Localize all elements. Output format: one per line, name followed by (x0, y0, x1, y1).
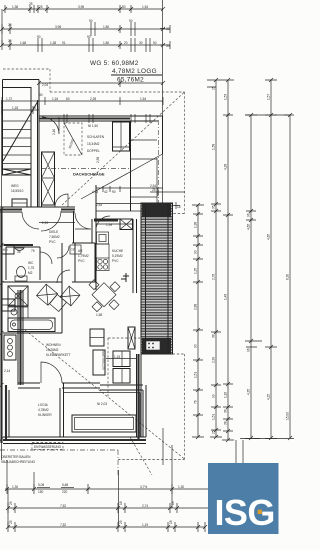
svg-text:1,72: 1,72 (6, 97, 12, 101)
svg-text:AR: AR (78, 249, 83, 253)
svg-text:5,19M2: 5,19M2 (112, 254, 123, 258)
svg-text:76: 76 (194, 400, 198, 404)
svg-text:42: 42 (104, 190, 108, 194)
svg-text:1,30: 1,30 (12, 485, 18, 489)
svg-text:1,51: 1,51 (212, 414, 216, 420)
svg-text:90: 90 (112, 190, 116, 194)
svg-text:PVC: PVC (49, 240, 56, 244)
svg-text:KLINKER: KLINKER (38, 413, 52, 417)
svg-text:25: 25 (39, 5, 43, 9)
svg-text:38: 38 (224, 421, 228, 425)
svg-text:90: 90 (194, 250, 198, 254)
svg-text:96: 96 (247, 213, 251, 217)
svg-text:90: 90 (87, 35, 91, 39)
svg-text:SCHLAFEN: SCHLAFEN (87, 135, 105, 139)
svg-text:18: 18 (169, 520, 173, 524)
svg-text:5,08: 5,08 (38, 483, 44, 487)
svg-text:96: 96 (247, 348, 251, 352)
svg-text:25: 25 (8, 39, 12, 43)
svg-text:99: 99 (212, 394, 216, 398)
svg-text:2,28: 2,28 (90, 97, 96, 101)
svg-text:4,78M2: 4,78M2 (38, 408, 49, 412)
svg-text:3,96: 3,96 (55, 25, 61, 29)
svg-text:2,04: 2,04 (42, 83, 48, 87)
svg-text:75: 75 (31, 249, 35, 253)
svg-text:25: 25 (9, 501, 13, 505)
svg-text:16,55/10: 16,55/10 (11, 189, 24, 193)
svg-text:15,00: 15,00 (286, 412, 290, 420)
svg-text:38: 38 (212, 334, 216, 338)
svg-text:1,35: 1,35 (194, 268, 198, 274)
svg-text:30: 30 (39, 93, 43, 97)
svg-text:4,28: 4,28 (224, 164, 228, 170)
svg-text:7,52: 7,52 (60, 523, 66, 527)
svg-text:1,75: 1,75 (28, 266, 34, 270)
svg-text:5,68: 5,68 (62, 483, 68, 487)
svg-text:2,58: 2,58 (96, 157, 100, 163)
svg-text:1,38: 1,38 (12, 5, 18, 9)
svg-text:18: 18 (171, 501, 175, 505)
svg-text:4,35: 4,35 (247, 389, 251, 395)
svg-text:WG 5: 60,98M2: WG 5: 60,98M2 (90, 60, 139, 67)
svg-text:SBAUABSCHREITUNG: SBAUABSCHREITUNG (1, 460, 36, 464)
svg-text:1,30: 1,30 (178, 485, 184, 489)
svg-text:1,99: 1,99 (106, 223, 112, 227)
svg-text:1,53: 1,53 (224, 94, 228, 100)
svg-text:90: 90 (37, 35, 41, 39)
svg-text:4,65: 4,65 (247, 224, 251, 230)
svg-text:90: 90 (89, 19, 93, 23)
svg-text:1,80: 1,80 (103, 25, 109, 29)
svg-text:3,7%: 3,7% (140, 485, 147, 489)
svg-text:38: 38 (224, 409, 228, 413)
svg-text:WC: WC (28, 261, 34, 265)
svg-text:1,68: 1,68 (20, 41, 26, 45)
svg-text:25: 25 (119, 520, 123, 524)
svg-text:1,57: 1,57 (267, 94, 271, 100)
svg-text:4,65: 4,65 (267, 234, 271, 240)
svg-text:LOGIA: LOGIA (38, 403, 49, 407)
svg-text:18: 18 (177, 205, 181, 209)
svg-text:1,18: 1,18 (12, 106, 18, 110)
svg-text:TR: TR (71, 248, 76, 252)
svg-text:WOHNEN: WOHNEN (46, 343, 61, 347)
svg-text:SITZGRUPPE: SITZGRUPPE (102, 350, 106, 370)
svg-text:OBERSTER BAUEN: OBERSTER BAUEN (1, 455, 31, 459)
svg-text:ENTWASSERUNG: ENTWASSERUNG (34, 445, 62, 449)
svg-text:2,54: 2,54 (150, 184, 156, 188)
svg-text:2,76: 2,76 (212, 274, 216, 280)
svg-text:7,60M2: 7,60M2 (49, 235, 60, 239)
svg-text:25: 25 (9, 520, 13, 524)
svg-text:KUCHE: KUCHE (112, 249, 123, 253)
svg-text:PVC: PVC (112, 259, 119, 263)
svg-text:30: 30 (166, 44, 170, 48)
svg-text:KLEBEPARKETT: KLEBEPARKETT (46, 353, 71, 357)
svg-text:2,39: 2,39 (212, 357, 216, 363)
svg-text:90: 90 (194, 344, 198, 348)
svg-text:2,14: 2,14 (4, 369, 10, 373)
svg-text:DOPPEL: DOPPEL (87, 149, 100, 153)
svg-text:18: 18 (119, 501, 123, 505)
svg-text:1,80: 1,80 (103, 41, 109, 45)
svg-text:1,58: 1,58 (96, 313, 102, 317)
svg-text:WEG: WEG (11, 184, 19, 188)
svg-text:2,74: 2,74 (142, 504, 148, 508)
svg-text:4,13: 4,13 (92, 190, 98, 194)
svg-text:20: 20 (124, 41, 128, 45)
svg-text:3,96: 3,96 (78, 5, 84, 9)
svg-text:2,88: 2,88 (194, 304, 198, 310)
svg-text:2,19: 2,19 (42, 221, 48, 225)
svg-text:1,38: 1,38 (194, 222, 198, 228)
svg-text:35: 35 (212, 205, 216, 209)
svg-text:Ni 2,03: Ni 2,03 (97, 402, 107, 406)
svg-text:50: 50 (153, 41, 157, 45)
svg-text:M2: M2 (28, 271, 33, 275)
svg-text:HD: HD (3, 248, 8, 252)
svg-text:25: 25 (152, 188, 156, 192)
svg-text:25: 25 (212, 430, 216, 434)
svg-text:50: 50 (122, 5, 126, 9)
svg-text:1,48: 1,48 (224, 294, 228, 300)
svg-text:PVC: PVC (78, 259, 85, 263)
svg-text:4,25: 4,25 (267, 394, 271, 400)
svg-text:1,16: 1,16 (52, 97, 58, 101)
svg-text:1,54: 1,54 (142, 5, 148, 9)
svg-text:25: 25 (8, 23, 12, 27)
svg-text:3: 3 (34, 106, 36, 110)
svg-text:1,15: 1,15 (114, 355, 120, 359)
svg-text:1,79M2: 1,79M2 (78, 254, 89, 258)
svg-text:6,30: 6,30 (286, 274, 290, 280)
svg-text:15,34M2: 15,34M2 (87, 142, 100, 146)
svg-text:1,16: 1,16 (224, 392, 228, 398)
svg-text:7,52: 7,52 (60, 504, 66, 508)
svg-text:DIELE: DIELE (49, 230, 58, 234)
svg-text:1,58: 1,58 (212, 144, 216, 150)
svg-text:35: 35 (17, 250, 21, 254)
svg-text:150: 150 (38, 490, 44, 494)
svg-text:65,76M2: 65,76M2 (117, 77, 144, 84)
svg-text:25: 25 (212, 86, 216, 90)
svg-text:1,51: 1,51 (194, 372, 198, 378)
svg-text:2,16: 2,16 (52, 129, 56, 135)
svg-text:1,19: 1,19 (142, 523, 148, 527)
svg-text:4,78M2 LOGG: 4,78M2 LOGG (112, 68, 157, 75)
svg-text:ISG: ISG (215, 492, 275, 533)
svg-text:30: 30 (139, 41, 143, 45)
svg-text:1,38: 1,38 (50, 41, 56, 45)
svg-text:25,26M2: 25,26M2 (46, 348, 59, 352)
svg-text:91: 91 (62, 41, 66, 45)
svg-text:90: 90 (129, 19, 133, 23)
svg-text:1,54: 1,54 (140, 97, 146, 101)
svg-text:220: 220 (62, 490, 68, 494)
svg-text:25: 25 (29, 2, 33, 6)
svg-text:60: 60 (66, 97, 70, 101)
svg-text:Ni 1,50: Ni 1,50 (88, 124, 98, 128)
svg-text:30: 30 (166, 27, 170, 31)
svg-text:DACHSCHRÄGE: DACHSCHRÄGE (73, 172, 105, 177)
